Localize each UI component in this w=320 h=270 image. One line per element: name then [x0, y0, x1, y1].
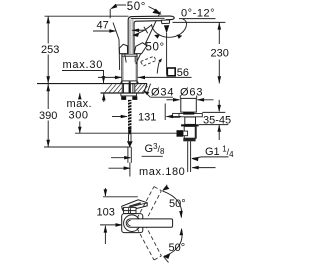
svg-text:50°: 50° [146, 42, 165, 54]
svg-text:253: 253 [41, 44, 59, 56]
svg-text:103: 103 [97, 207, 115, 219]
svg-text:300: 300 [69, 110, 89, 122]
svg-text:47: 47 [97, 20, 109, 32]
svg-text:0°-12°: 0°-12° [181, 8, 215, 20]
svg-text:max.30: max.30 [63, 59, 104, 71]
svg-text:50°: 50° [127, 1, 146, 13]
svg-text:max.: max. [67, 98, 92, 110]
svg-text:max.180: max.180 [139, 166, 185, 178]
svg-text:131: 131 [138, 112, 156, 124]
svg-text:50°: 50° [169, 198, 186, 210]
svg-text:35-45: 35-45 [203, 115, 231, 127]
svg-text:390: 390 [39, 110, 57, 122]
svg-text:50°: 50° [169, 242, 186, 254]
svg-text:Ø34: Ø34 [151, 87, 174, 99]
svg-text:230: 230 [211, 48, 229, 60]
svg-text:Ø63: Ø63 [180, 87, 203, 99]
